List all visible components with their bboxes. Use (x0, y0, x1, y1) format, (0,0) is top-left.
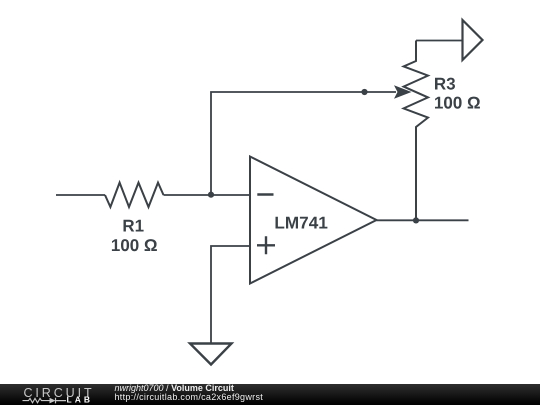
credits line 2 (115, 393, 264, 402)
label R1 (124, 220, 144, 232)
label R3 value 100 ohm (435, 97, 480, 109)
op-amp minus sign (257, 193, 273, 195)
wire input left (56, 194, 105, 196)
wire op-amp output (377, 219, 469, 221)
ground (190, 344, 232, 365)
svg-text:LAB: LAB (67, 395, 93, 405)
node junction on feedback wire (361, 89, 367, 95)
wire R1 to op-amp inverting input (164, 194, 251, 196)
resistor R1 (105, 183, 164, 207)
output flag (463, 20, 483, 60)
op-amp plus sign (257, 236, 275, 254)
wire R3 top to output flag (416, 40, 463, 42)
op-amp U1 body (250, 157, 377, 284)
CircuitLab logo (0, 384, 110, 405)
credits line 1 (115, 384, 234, 393)
potentiometer R3 wiper arrow (394, 85, 412, 99)
potentiometer R3 body (404, 41, 428, 221)
label LM741 (276, 217, 328, 229)
node junction at output (413, 217, 419, 223)
footer bar (0, 384, 540, 405)
label R1 value 100 ohm (112, 239, 157, 251)
wire non-inverting input to ground (211, 246, 250, 344)
wire feedback vertical+horizontal to wiper (211, 92, 396, 195)
label R3 (435, 78, 455, 90)
node junction at R1 output (208, 192, 214, 198)
